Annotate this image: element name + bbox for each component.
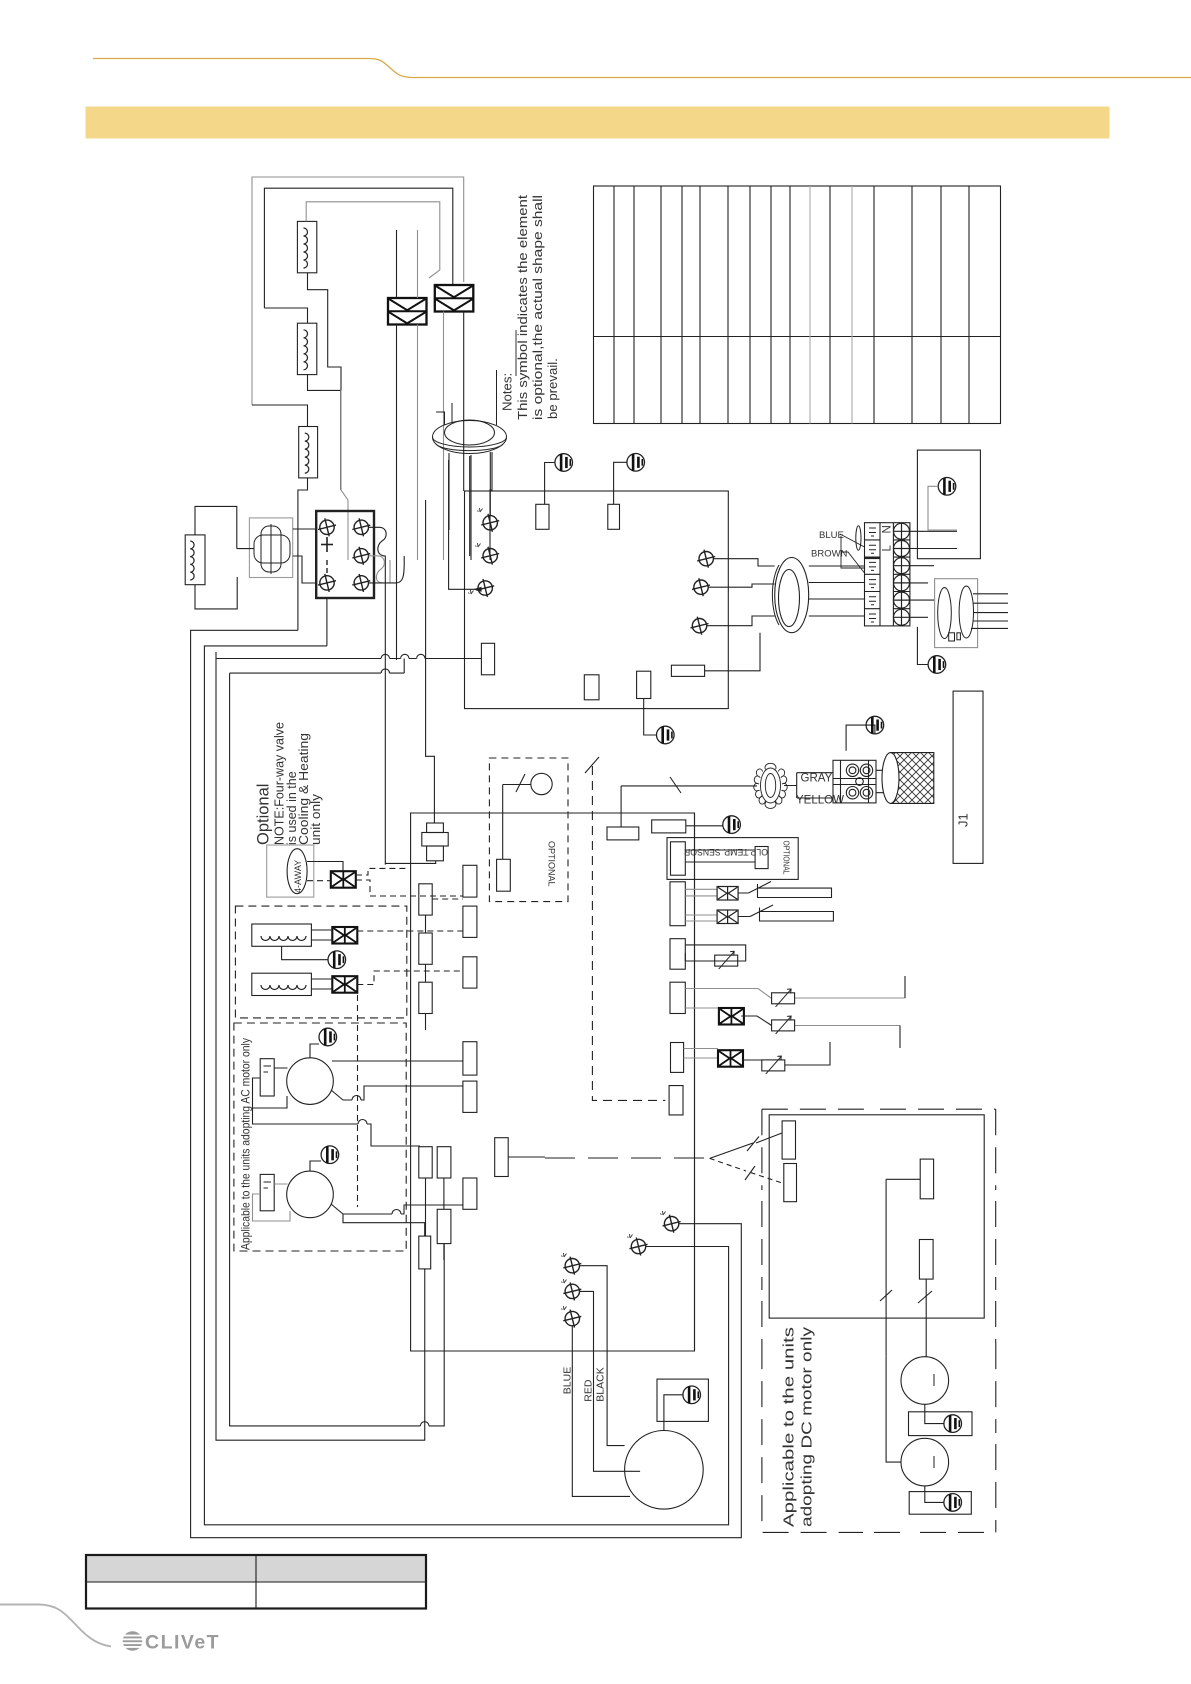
svg-text:BLUE: BLUE xyxy=(562,1367,574,1394)
svg-text:unit only: unit only xyxy=(309,793,323,845)
svg-text:N: N xyxy=(882,525,894,533)
svg-text:CLIVeT: CLIVeT xyxy=(145,1632,220,1654)
svg-text:YELLOW: YELLOW xyxy=(796,795,844,807)
svg-text:Notes:: Notes: xyxy=(500,373,515,411)
svg-text:adopting DC motor only: adopting DC motor only xyxy=(799,1326,816,1527)
svg-text:BLUE: BLUE xyxy=(819,530,844,541)
svg-text:GRAY: GRAY xyxy=(801,773,833,785)
svg-text:Applicable to the units adopti: Applicable to the units adopting AC moto… xyxy=(239,1038,253,1250)
svg-text:OPTIONAL: OPTIONAL xyxy=(547,841,557,887)
svg-text:Applicable to the units: Applicable to the units xyxy=(781,1327,798,1527)
svg-text:J1: J1 xyxy=(956,813,971,827)
svg-text:Optional: Optional xyxy=(255,784,273,845)
svg-text:4-AWAY: 4-AWAY xyxy=(293,860,303,893)
svg-text:BLACK: BLACK xyxy=(595,1367,607,1401)
svg-text:BROWN: BROWN xyxy=(811,549,848,560)
svg-text:is optional,the actual shape: is optional,the actual shape shall xyxy=(530,195,545,420)
svg-text:RED: RED xyxy=(583,1379,595,1402)
svg-text:be prevail.: be prevail. xyxy=(545,358,560,419)
svg-text:OLP TEMP. SENSOR: OLP TEMP. SENSOR xyxy=(684,846,768,857)
svg-text:OPTIONAL: OPTIONAL xyxy=(782,841,792,875)
svg-text:This symbol indicates the elem: This symbol indicates the element xyxy=(515,195,530,420)
svg-text:L: L xyxy=(882,545,894,552)
